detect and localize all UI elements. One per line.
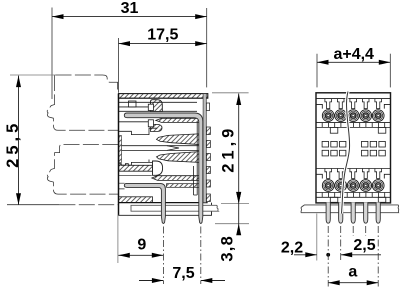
- pcb board side view: [131, 205, 218, 211]
- row 1 baseline: [316, 98, 391, 100]
- dim 3,8 (vertical, arrows outside): [219, 192, 242, 261]
- body bottom line: [119, 202, 208, 204]
- svg-text:7,5: 7,5: [172, 265, 194, 282]
- window band row1: [316, 123, 391, 203]
- step to funnel: [119, 128, 158, 134]
- funnel center slot lines: [122, 146, 204, 151]
- pins front view: [326, 202, 380, 223]
- right wall gray strip: [203, 94, 206, 203]
- svg-text:9: 9: [137, 236, 146, 253]
- lower socket tube hatched: [152, 176, 201, 181]
- extension lines: [51, 8, 53, 100]
- svg-text:a: a: [348, 264, 357, 281]
- dim a+4,4: [317, 46, 390, 65]
- dim 31: [52, 0, 207, 19]
- body outline: [316, 93, 391, 203]
- upper holder block: [119, 121, 149, 123]
- window band row2: [316, 196, 391, 198]
- svg-text:2,5: 2,5: [353, 237, 375, 254]
- phantom mating connector outline (dashed): [47, 75, 118, 205]
- row 2 baseline: [316, 168, 391, 170]
- bottom skirt: [119, 203, 212, 216]
- row1 under-line: [316, 122, 391, 124]
- break line: [342, 92, 350, 214]
- bottom wall hatched: [119, 197, 153, 203]
- lower cavity lines: [119, 176, 152, 189]
- funnel lower hatched trapezoid: [157, 151, 204, 162]
- dim 17,5: [119, 26, 207, 46]
- middle vents: [322, 141, 385, 156]
- svg-text:3,8: 3,8: [219, 235, 237, 262]
- left/right margin steps row2: [316, 174, 391, 178]
- lower step under funnel: [119, 160, 158, 166]
- row2 under-line: [316, 192, 391, 194]
- dim 9: [118, 236, 163, 257]
- svg-text:25,5: 25,5: [4, 120, 22, 168]
- svg-text:a+4,4: a+4,4: [333, 46, 374, 63]
- svg-text:2,2: 2,2: [281, 239, 303, 256]
- dim 7,5 (arrows outside): [139, 265, 225, 283]
- pin1 (lower row, front): [124, 183, 165, 223]
- lower castle bar hatched: [119, 164, 153, 172]
- dim 2,2 / 2,5: [281, 237, 381, 257]
- T-slots and circles row1: [322, 99, 384, 192]
- centerlines: [163, 226, 378, 287]
- svg-text:17,5: 17,5: [147, 26, 178, 43]
- under-cap bars: [119, 98, 204, 107]
- body top cap (hatched): [119, 94, 208, 99]
- right wall white notch: [206, 103, 209, 111]
- under-cap window: [129, 101, 137, 107]
- tongue block upper row: [151, 100, 163, 112]
- contact unit rows: [316, 99, 391, 193]
- right wall blocks (hatched): [206, 127, 210, 202]
- inner wall right: [194, 122, 198, 195]
- dim 21,9 (vertical): [220, 94, 242, 236]
- svg-text:31: 31: [121, 0, 139, 17]
- left/right margin steps row1: [316, 104, 391, 108]
- pin2 (upper row, rear): [124, 113, 203, 224]
- front face: [118, 94, 120, 216]
- dim 25,5 (vertical): [4, 76, 22, 205]
- socket tube hatched (upper): [156, 118, 201, 122]
- svg-text:21,9: 21,9: [220, 125, 238, 173]
- flange / pcb front view: [301, 205, 399, 213]
- front wall hatched strip: [119, 136, 122, 163]
- funnel M slot: [167, 146, 179, 151]
- funnel upper hatched trapezoid: [157, 134, 204, 145]
- upper cavity lines: [119, 110, 198, 112]
- dim a: [328, 264, 378, 286]
